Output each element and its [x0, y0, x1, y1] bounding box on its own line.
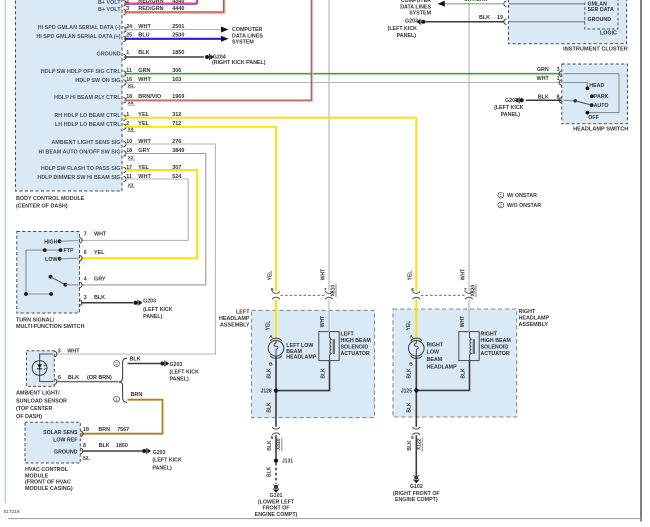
contact PARK [590, 94, 594, 98]
svg-text:SYSTEM: SYSTEM [409, 10, 431, 16]
BCM pin 18 HDLP HI BEAM RLY CTRL (BRN/VIO 1969) [123, 98, 126, 103]
svg-text:BODY CONTROL MODULE: BODY CONTROL MODULE [16, 196, 85, 202]
svg-text:BLK: BLK [99, 443, 110, 449]
BCM pin 16 HDLP SW ON SIG (WHT 103) [123, 80, 126, 85]
ground G204 (right kick panel) [205, 55, 209, 59]
svg-text:1: 1 [557, 76, 560, 82]
svg-text:B+ VOLT: B+ VOLT [98, 7, 121, 13]
svg-text:2500: 2500 [172, 33, 184, 39]
svg-text:18: 18 [126, 94, 132, 100]
svg-text:(LOWER LEFT: (LOWER LEFT [258, 499, 295, 505]
wire YEL into right low beam headlamp [415, 300, 417, 340]
inline connector pin 6 YEL (R) [413, 291, 420, 293]
inline connector pin 7 WHT X810 (L) [325, 291, 332, 293]
arrow to computer data lines system (2500) [221, 36, 229, 42]
dashed wire BLK J131 to G101 [275, 463, 277, 484]
svg-text:6: 6 [411, 287, 414, 293]
BCM pin 17 HDLP SW FLASH TO PASS SIG (YEL 307) [123, 167, 126, 172]
svg-text:B+ VOLT: B+ VOLT [98, 0, 121, 6]
wire WHT into solenoid (L) [328, 300, 330, 332]
wire WHT into solenoid (R) [468, 300, 470, 332]
sensor pin 3 WHT [54, 351, 57, 356]
svg-text:LOW: LOW [45, 257, 57, 263]
svg-text:(LEFT KICK: (LEFT KICK [170, 370, 200, 376]
svg-text:MODULE CASING): MODULE CASING) [25, 486, 73, 492]
ground G203 (left kick panel) for headlamp switch [520, 98, 524, 102]
headlamp switch internal wire GRN to OFF contact [564, 74, 620, 113]
svg-text:HI SPD GMLAN SERIAL DATA (+): HI SPD GMLAN SERIAL DATA (+) [36, 34, 120, 40]
wire WHT to right high beam solenoid (from top) [468, 0, 470, 291]
legend note 2 without onstar [498, 202, 504, 208]
cluster internal wire ground [509, 21, 585, 23]
HVAC pin 8 ground [80, 448, 83, 453]
TS pin 3 BLK [79, 300, 82, 305]
svg-text:BLK: BLK [94, 295, 105, 301]
svg-text:RIGHT: RIGHT [427, 342, 444, 348]
svg-text:HIGH: HIGH [44, 239, 57, 245]
svg-text:HI SPD GMLAN SERIAL DATA (-): HI SPD GMLAN SERIAL DATA (-) [38, 25, 121, 31]
connector dashed link (R) [421, 294, 465, 296]
svg-text:ACTUATOR: ACTUATOR [341, 351, 370, 357]
svg-text:BLK: BLK [538, 94, 549, 100]
svg-text:1850: 1850 [172, 50, 184, 56]
svg-text:GRN: GRN [537, 67, 549, 73]
svg-text:3: 3 [84, 295, 87, 301]
svg-text:(LEFT KICK: (LEFT KICK [494, 105, 524, 111]
svg-text:5: 5 [271, 435, 274, 441]
turn signal / multi-function switch box [17, 232, 80, 314]
svg-text:(RIGHT FRONT OF: (RIGHT FRONT OF [393, 491, 441, 497]
wire BLK below assembly (L) [275, 418, 277, 427]
headlamp switch internal wire WHT to HEAD contact [564, 83, 588, 88]
ground G203 (left kick panel) for cluster [421, 20, 425, 24]
wire WHT 103 headlamp on signal [124, 82, 562, 84]
svg-text:LH HDLP LO BEAM CTRL: LH HDLP LO BEAM CTRL [55, 122, 121, 128]
svg-text:(OR BRN): (OR BRN) [87, 375, 112, 381]
svg-text:LOW REF: LOW REF [53, 437, 78, 443]
svg-text:YEL: YEL [94, 250, 105, 256]
TS pin 6 YEL low [79, 256, 82, 261]
svg-text:G102: G102 [410, 484, 423, 490]
ambient light/sunload sensor box [26, 351, 54, 387]
connector dashed link (L) [281, 294, 325, 296]
svg-text:ENGINE COMPT): ENGINE COMPT) [395, 497, 438, 503]
wire BLK solenoid to J125 [416, 361, 469, 391]
wire BLK 19 cluster ground [426, 21, 505, 23]
BCM pin 2 LH HDLP LO BEAM CTRL (YEL 712) [123, 124, 126, 129]
contact AUTO [590, 103, 594, 107]
svg-text:TURN SIGNAL/: TURN SIGNAL/ [16, 317, 55, 323]
svg-text:HDLP SW FLASH TO PASS SIG: HDLP SW FLASH TO PASS SIG [41, 166, 121, 172]
ground G203 (left kick panel) for sensor BLK branch [160, 362, 164, 366]
wire BLK bulb to J125 [415, 356, 417, 390]
headlamp switch pin 1 WHT [559, 80, 562, 85]
wire BLK 1850 BCM ground [124, 56, 204, 58]
svg-text:AUTO: AUTO [594, 103, 609, 109]
svg-text:J128: J128 [261, 389, 272, 395]
wire RED/GRN 4440 B+ VOLT (exits top) [124, 0, 223, 12]
ground G101 (lower left front of engine compt) [274, 485, 278, 489]
contact OFF [586, 111, 590, 115]
svg-text:WHT: WHT [537, 76, 550, 82]
HVAC pin 18 solar sens low ref [80, 431, 83, 436]
TS wiper arm [49, 275, 53, 279]
svg-text:WHT: WHT [460, 316, 466, 327]
svg-text:BLK: BLK [407, 440, 413, 451]
svg-text:WHT: WHT [94, 232, 107, 238]
wire BLK turn signal switch ground [81, 302, 133, 304]
ground G203 (left kick panel) for HVAC [142, 449, 146, 453]
instrument cluster logic sub-box [585, 0, 618, 29]
svg-text:W/ ONSTAR: W/ ONSTAR [507, 193, 537, 199]
svg-text:BLK: BLK [407, 402, 413, 413]
svg-text:HEADLAMP: HEADLAMP [427, 364, 457, 370]
wire BLK solenoid to J128 [276, 361, 330, 391]
svg-text:G203: G203 [170, 362, 183, 368]
svg-text:X810: X810 [330, 285, 336, 297]
svg-text:BLK: BLK [68, 375, 79, 381]
wire GRY 3849 hi beam auto on/off switch signal [81, 154, 206, 285]
svg-text:8: 8 [557, 94, 560, 100]
svg-text:BLK: BLK [130, 356, 141, 362]
svg-text:7567: 7567 [117, 427, 129, 433]
svg-text:HDLP DIMMER SW HI BEAM SIG: HDLP DIMMER SW HI BEAM SIG [37, 175, 120, 181]
svg-text:G203: G203 [505, 98, 518, 104]
svg-text:HIGH BEAM: HIGH BEAM [341, 338, 372, 344]
left low beam headlamp bulb [270, 338, 281, 341]
svg-text:ASSEMBLY: ASSEMBLY [519, 322, 549, 328]
headlamp switch box [562, 64, 628, 124]
svg-text:FRONT OF: FRONT OF [262, 506, 290, 512]
svg-text:BLU: BLU [138, 33, 149, 39]
BCM pin 1 GROUND (BLK 1850) [123, 54, 126, 59]
svg-text:ASSEMBLY: ASSEMBLY [220, 323, 250, 329]
svg-text:YEL: YEL [267, 271, 273, 281]
wire BRN/VIO 1969 hi beam relay ctrl (exits top) [124, 0, 311, 100]
svg-text:J125: J125 [401, 388, 412, 394]
svg-text:(LEFT KICK: (LEFT KICK [143, 307, 173, 313]
wire BLU 2500 GMLAN serial data (+) [124, 38, 221, 40]
left headlamp assembly box [252, 310, 375, 417]
svg-text:INSTRUMENT CLUSTER: INSTRUMENT CLUSTER [563, 47, 628, 53]
svg-text:LOGIC: LOGIC [600, 31, 617, 37]
svg-text:SUNLOAD SENSOR: SUNLOAD SENSOR [16, 398, 67, 404]
svg-text:BLK: BLK [266, 368, 272, 379]
svg-text:PANEL): PANEL) [397, 33, 417, 39]
svg-text:ENGINE COMPT): ENGINE COMPT) [255, 512, 298, 518]
wire BLK 1850 HVAC ground [82, 450, 142, 452]
cluster pin serial data [504, 1, 507, 6]
cluster internal wire serial data [509, 3, 585, 5]
inline connector pin 7 WHT X820 (R) [465, 291, 472, 293]
svg-text:SOLAR SENS: SOLAR SENS [43, 430, 78, 436]
wire YEL 307 flash to pass signal [81, 170, 197, 258]
junction J128 [275, 391, 277, 418]
svg-text:X820: X820 [470, 285, 476, 297]
wire WHT 524 dimmer switch hi beam signal [81, 179, 188, 240]
svg-text:YEL: YEL [408, 271, 414, 281]
wire BLK connector to G102 (right) [415, 435, 417, 475]
sensor internal wire [40, 354, 53, 382]
svg-text:6: 6 [271, 287, 274, 293]
svg-text:PANEL): PANEL) [152, 465, 172, 471]
TS pin 4 GRY [79, 282, 82, 287]
cluster pin 19 ground [504, 19, 507, 24]
wire GRN 306 headlamp off signal [124, 73, 562, 75]
svg-text:6: 6 [84, 250, 87, 256]
svg-text:617219: 617219 [4, 509, 20, 515]
svg-text:OF DASH): OF DASH) [16, 414, 42, 420]
svg-text:SER DATA: SER DATA [588, 7, 614, 13]
svg-text:RH HDLP LO BEAM CTRL: RH HDLP LO BEAM CTRL [54, 113, 121, 119]
wire WHT 2501 GMLAN serial data (-) [124, 29, 221, 31]
svg-text:1: 1 [126, 50, 129, 56]
inline connector pin 5 (R) [413, 427, 420, 429]
svg-text:GROUND: GROUND [54, 449, 78, 455]
svg-text:(CENTER OF DASH): (CENTER OF DASH) [16, 203, 68, 209]
svg-text:HDLP HI BEAM RLY CTRL: HDLP HI BEAM RLY CTRL [54, 95, 121, 101]
svg-text:BLK: BLK [407, 368, 413, 379]
svg-text:BLK: BLK [461, 368, 467, 379]
instrument cluster box [509, 0, 627, 44]
svg-text:ACTUATOR: ACTUATOR [481, 351, 510, 357]
legend note 1 with onstar [498, 192, 504, 198]
wire YEL into left low beam headlamp [275, 300, 277, 340]
svg-text:(TOP CENTER: (TOP CENTER [16, 406, 52, 412]
svg-text:24: 24 [126, 24, 132, 30]
svg-text:RED/GRN: RED/GRN [138, 6, 163, 12]
svg-text:MULTI-FUNCTION SWITCH: MULTI-FUNCTION SWITCH [16, 324, 85, 330]
svg-text:COMPUTER: COMPUTER [232, 27, 262, 33]
svg-text:MODULE: MODULE [25, 473, 49, 479]
HVAC control module box [25, 422, 80, 463]
svg-text:WHT: WHT [138, 24, 151, 30]
svg-text:G101: G101 [270, 493, 283, 499]
svg-text:HEADLAMP: HEADLAMP [219, 316, 250, 322]
wire BLK below assembly (R) [415, 417, 417, 427]
svg-text:3: 3 [58, 348, 61, 354]
svg-text:HDLP SW ON SIG: HDLP SW ON SIG [75, 78, 120, 84]
BCM pin 10 AMBIENT LIGHT SENS SIG (WHT 276) [123, 141, 126, 146]
svg-text:BRN/VIO: BRN/VIO [138, 94, 162, 100]
svg-text:25: 25 [126, 33, 132, 39]
svg-text:BLK: BLK [138, 50, 149, 56]
svg-text:LEFT: LEFT [236, 310, 250, 316]
svg-text:(LEFT KICK: (LEFT KICK [388, 26, 418, 32]
svg-text:SOLENOID: SOLENOID [481, 345, 509, 351]
svg-text:YEL: YEL [266, 321, 272, 331]
svg-text:7: 7 [464, 287, 467, 293]
svg-text:(RIGHT KICK PANEL): (RIGHT KICK PANEL) [212, 60, 266, 66]
TS common bus wire [26, 250, 51, 294]
svg-text:7: 7 [84, 232, 87, 238]
svg-text:19: 19 [497, 15, 503, 21]
BCM pin 11 HDLP DIMMER SW HI BEAM SIG (WHT 524) [123, 176, 126, 181]
left high beam solenoid actuator [319, 332, 339, 361]
svg-text:5: 5 [411, 435, 414, 441]
svg-text:3: 3 [557, 67, 560, 73]
svg-text:PANEL): PANEL) [170, 376, 190, 382]
svg-text:PANEL): PANEL) [143, 314, 163, 320]
svg-text:B: B [409, 362, 413, 368]
svg-text:6: 6 [58, 375, 61, 381]
note 2 marker (w/o onstar) [114, 361, 120, 367]
svg-text:HVAC CONTROL: HVAC CONTROL [25, 467, 69, 473]
wire WHT to left high beam solenoid (from top) [328, 0, 330, 291]
svg-text:BRN: BRN [98, 427, 110, 433]
junction J125 [415, 390, 417, 417]
junction J131 [274, 459, 278, 463]
svg-text:G203: G203 [405, 18, 418, 24]
svg-text:RIGHT: RIGHT [481, 332, 498, 338]
svg-text:LEFT: LEFT [341, 332, 355, 338]
svg-text:GROUND: GROUND [97, 51, 121, 57]
svg-text:WHT: WHT [67, 348, 80, 354]
wire RED/VIO 4340 B+ VOLT (exits top) [124, 0, 197, 3]
svg-text:8: 8 [83, 443, 86, 449]
svg-text:HIGH BEAM: HIGH BEAM [481, 338, 512, 344]
svg-text:GRY: GRY [94, 277, 106, 283]
BCM pin 24 HI SPD GMLAN SERIAL DATA (-) (WHT 2501) [123, 27, 126, 32]
svg-text:COMPUTER: COMPUTER [401, 0, 431, 4]
headlamp switch pin 8 BLK [559, 98, 562, 103]
sensor pin 6 BLK [54, 379, 57, 384]
svg-text:W/O ONSTAR: W/O ONSTAR [507, 203, 541, 209]
wire YEL 312 RH low beam [124, 118, 416, 291]
svg-text:3: 3 [126, 6, 129, 12]
wire serial data to computer data lines [445, 3, 505, 5]
wire BLK (OR BRN) from sensor [56, 381, 118, 383]
wire BLK connector to J131 (left) [275, 435, 277, 460]
svg-text:G203: G203 [153, 450, 166, 456]
svg-text:YEL: YEL [406, 321, 412, 331]
svg-text:X122: X122 [417, 438, 423, 450]
wire WHT 276 ambient light sensor signal [56, 144, 216, 354]
svg-text:4440: 4440 [172, 6, 184, 12]
right high beam solenoid actuator [459, 332, 479, 361]
svg-text:LEFT LOW: LEFT LOW [286, 343, 313, 349]
svg-text:GRY/GRN: GRY/GRN [464, 0, 488, 3]
BCM pin 3 B+ VOLT (RED/GRN 4440) [123, 9, 126, 14]
svg-text:4: 4 [84, 277, 87, 283]
svg-text:BLK: BLK [267, 466, 273, 477]
inline connector pin 6 YEL (L) [272, 291, 279, 293]
TS contact FTP [26, 249, 61, 251]
svg-text:BRN: BRN [131, 392, 143, 398]
svg-text:HEADLAMP: HEADLAMP [519, 315, 550, 321]
BCM pin 25 HI SPD GMLAN SERIAL DATA (+) (BLU 2500) [123, 36, 126, 41]
photodiode sensor symbol [32, 361, 47, 376]
note 1 marker (w/ onstar) [114, 396, 120, 402]
arrow from computer data lines system [438, 1, 445, 7]
svg-text:BLK: BLK [266, 402, 272, 413]
svg-text:HEADLAMP SWITCH: HEADLAMP SWITCH [573, 127, 628, 133]
svg-text:X810: X810 [276, 438, 282, 450]
BCM pin 2 B+ VOLT (RED/GRN 4340) [123, 1, 126, 6]
BCM pin 18 HI BEAM AUTO ON/OFF SW SIG (GRY 3849) [123, 151, 126, 156]
TS pin 7 WHT high [79, 238, 82, 243]
svg-text:OFF: OFF [588, 115, 599, 121]
svg-text:PANEL): PANEL) [501, 112, 521, 118]
svg-text:AMBIENT LIGHT/: AMBIENT LIGHT/ [16, 391, 60, 397]
svg-text:RIGHT: RIGHT [519, 309, 536, 315]
svg-text:G203: G203 [143, 299, 156, 305]
svg-text:1850: 1850 [116, 443, 128, 449]
svg-text:DATA LINES: DATA LINES [232, 33, 263, 39]
svg-text:2501: 2501 [172, 24, 184, 30]
svg-text:SYSTEM: SYSTEM [232, 40, 254, 46]
svg-text:J131: J131 [282, 459, 293, 465]
svg-text:BLK: BLK [479, 15, 490, 21]
body control module (BCM) box [16, 0, 123, 191]
svg-text:(FRONT OF HVAC: (FRONT OF HVAC [25, 480, 71, 486]
svg-text:7: 7 [324, 287, 327, 293]
headlamp switch pin 3 GRN [559, 71, 562, 76]
right low beam headlamp bulb [411, 338, 422, 341]
alternatives brace [119, 358, 127, 402]
ground G203 (left kick panel) for turn signal switch [134, 301, 138, 305]
svg-text:GROUND: GROUND [588, 17, 612, 23]
svg-text:SOLENOID: SOLENOID [341, 345, 369, 351]
svg-text:WHT: WHT [320, 316, 326, 327]
svg-text:18: 18 [83, 427, 89, 433]
right headlamp assembly box [393, 309, 517, 417]
svg-text:HDLP SW HDLP OFF SIG CTRL: HDLP SW HDLP OFF SIG CTRL [41, 69, 121, 75]
svg-text:HEAD: HEAD [589, 83, 604, 89]
svg-text:AMBIENT LIGHT SENS SIG: AMBIENT LIGHT SENS SIG [51, 140, 120, 146]
headlamp switch wiper from BLK pin to AUTO [564, 99, 576, 102]
wire BLK bulb to J128 [275, 356, 277, 390]
svg-text:HI BEAM AUTO ON/OFF SW SIG: HI BEAM AUTO ON/OFF SW SIG [38, 149, 120, 155]
svg-text:BEAM: BEAM [427, 357, 443, 363]
svg-text:WHT: WHT [461, 269, 467, 280]
svg-text:B: B [269, 362, 273, 368]
svg-text:PARK: PARK [594, 94, 609, 100]
arrow to computer data lines system (2501) [221, 27, 229, 33]
ground G102 (right front of engine compt) [414, 476, 418, 480]
BCM pin 1 RH HDLP LO BEAM CTRL (YEL 312) [123, 115, 126, 120]
svg-text:WHT: WHT [321, 269, 327, 280]
contact HEAD [586, 86, 590, 90]
inline connector pin 5 (L) [272, 427, 279, 429]
wire BLK 8 headlamp switch ground [526, 99, 562, 101]
svg-text:(LEFT KICK: (LEFT KICK [152, 458, 182, 464]
svg-text:HEADLAMP: HEADLAMP [286, 355, 316, 361]
svg-text:BLK: BLK [321, 368, 327, 379]
svg-text:FTP: FTP [64, 248, 74, 254]
svg-text:1969: 1969 [172, 94, 184, 100]
BCM pin 11 HDLP SW HDLP OFF SIG CTRL (GRN 306) [123, 71, 126, 76]
svg-text:BLK: BLK [267, 440, 273, 451]
svg-text:LOW: LOW [427, 350, 439, 356]
wire YEL 712 LH low beam [124, 127, 276, 291]
